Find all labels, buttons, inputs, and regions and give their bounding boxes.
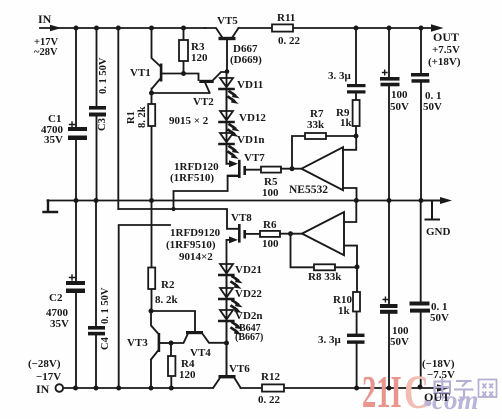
svg-text:0. 1 50V: 0. 1 50V xyxy=(100,287,111,324)
node IN bottom terminal circle xyxy=(56,384,64,392)
capacitor 0.1 50V lower xyxy=(420,201,422,389)
LED VD21 xyxy=(220,264,233,273)
svg-text:R2: R2 xyxy=(161,279,175,291)
node VD2n VT4 junction xyxy=(224,341,229,346)
capacitor 0.1 50V upper xyxy=(420,28,422,201)
node op-amp inverting junction xyxy=(290,166,295,171)
wire A middle horizontal xyxy=(118,209,238,229)
svg-text:50V: 50V xyxy=(430,312,449,324)
svg-text:VD11: VD11 xyxy=(237,79,263,91)
svg-text:8. 2k: 8. 2k xyxy=(137,106,148,128)
svg-text:35V: 35V xyxy=(44,134,63,146)
capacitor C1 xyxy=(75,28,77,201)
ground left end hook xyxy=(44,201,58,213)
resistor R3 xyxy=(183,28,185,74)
wire top rail xyxy=(40,27,434,29)
capacitor 100u 50V lower electrolytic xyxy=(388,201,390,389)
wire left long column top xyxy=(117,28,119,209)
capacitor 3.3u upper xyxy=(355,28,357,84)
svg-text:R8 33k: R8 33k xyxy=(308,271,342,283)
LED VD1n xyxy=(220,133,233,142)
wire mid rail xyxy=(48,200,422,202)
svg-text:VT1: VT1 xyxy=(130,67,151,79)
transistor VT1 xyxy=(152,28,161,93)
node dots mid rail xyxy=(74,198,424,203)
svg-text:50V: 50V xyxy=(390,101,409,113)
resistor R11 xyxy=(272,24,293,31)
svg-text:21I: 21I xyxy=(362,367,402,417)
svg-text:C2: C2 xyxy=(49,292,63,304)
transistor VT8 mosfet xyxy=(238,224,241,243)
svg-text:50V: 50V xyxy=(423,101,442,113)
svg-text:OUT: OUT xyxy=(433,30,459,44)
svg-text:0. 22: 0. 22 xyxy=(278,35,301,47)
svg-text:GND: GND xyxy=(426,226,451,238)
op-amp U1 upper NE5532 xyxy=(302,147,344,190)
svg-text:IN: IN xyxy=(36,382,50,396)
node dots upper misc xyxy=(149,71,186,96)
node dots top rail xyxy=(74,26,424,31)
watermark dianziwang chars xyxy=(435,378,497,401)
wire feedback lower xyxy=(291,234,315,268)
resistor R1 xyxy=(151,93,153,201)
svg-text:9014×2: 9014×2 xyxy=(179,251,213,263)
svg-text:100: 100 xyxy=(262,238,279,250)
svg-text:VT7: VT7 xyxy=(244,152,265,164)
watermark dot com xyxy=(425,385,479,415)
transistor VT2 xyxy=(183,72,227,93)
svg-text:1RFD9120: 1RFD9120 xyxy=(170,227,221,239)
svg-text:(B667): (B667) xyxy=(235,332,263,343)
svg-text:100: 100 xyxy=(391,89,408,101)
svg-text:50V: 50V xyxy=(390,336,409,348)
svg-text:(1RF510): (1RF510) xyxy=(170,172,214,184)
LED VD11 xyxy=(226,72,228,164)
svg-text:R11: R11 xyxy=(277,12,295,24)
svg-text:120: 120 xyxy=(191,52,208,64)
watermark 21IC xyxy=(362,367,429,419)
svg-text:VT8: VT8 xyxy=(231,212,252,224)
svg-text:+7.5V: +7.5V xyxy=(432,44,460,56)
svg-text:33k: 33k xyxy=(307,119,325,131)
capacitor 100u 50V upper electrolytic xyxy=(388,28,390,201)
svg-text:R1: R1 xyxy=(126,111,137,124)
svg-text:(−28V): (−28V) xyxy=(28,358,61,370)
svg-text:VD2n: VD2n xyxy=(235,310,263,322)
node R2 bottom junction xyxy=(149,309,154,314)
wire B middle horizontal xyxy=(119,225,170,388)
svg-text:NE5532: NE5532 xyxy=(289,184,328,196)
svg-text:VT6: VT6 xyxy=(229,363,250,375)
resistor R4 xyxy=(170,343,172,388)
resistor R5 xyxy=(261,167,281,173)
node R7 R9 junction xyxy=(354,134,359,139)
svg-text:(+18V): (+18V) xyxy=(428,56,461,68)
svg-text:35V: 35V xyxy=(50,318,69,330)
node IN top arrow mark xyxy=(50,25,62,31)
svg-text:(1RF9510): (1RF9510) xyxy=(166,239,216,251)
svg-text:0. 1 50V: 0. 1 50V xyxy=(98,57,109,94)
capacitor C3 xyxy=(96,28,98,201)
svg-text:VD21: VD21 xyxy=(235,264,262,276)
svg-text:100: 100 xyxy=(262,187,279,199)
op-amp U1 lower xyxy=(302,212,344,255)
transistor VT5 xyxy=(205,28,239,37)
svg-text:VD12: VD12 xyxy=(239,112,266,124)
transistor VT4 xyxy=(151,311,227,343)
node VT3 base junction xyxy=(169,341,174,346)
svg-text:3. 3μ: 3. 3μ xyxy=(328,70,352,82)
svg-text:VT5: VT5 xyxy=(217,15,238,27)
svg-text:1k: 1k xyxy=(338,305,351,317)
svg-text:VD22: VD22 xyxy=(235,288,262,300)
node VT7 wireA junction xyxy=(171,207,175,211)
svg-text:C3: C3 xyxy=(97,118,108,131)
svg-text:0. 22: 0. 22 xyxy=(258,394,281,406)
resistor R2 xyxy=(151,201,153,312)
resistor R9 xyxy=(355,94,357,136)
svg-text:8. 2k: 8. 2k xyxy=(155,294,179,306)
wire feedback upper xyxy=(292,136,305,169)
node OUT bottom arrow xyxy=(437,384,450,392)
resistor R7 xyxy=(305,133,326,139)
node lower op-amp junction xyxy=(288,231,293,236)
wire VT1/VT2 emitter bus xyxy=(152,92,210,94)
LED VD12 xyxy=(220,111,233,120)
transistor VT7 mosfet xyxy=(227,163,231,165)
LED VD2n xyxy=(220,310,233,319)
svg-text:120: 120 xyxy=(179,369,196,381)
svg-text:3. 3μ: 3. 3μ xyxy=(318,334,342,346)
svg-text:VT3: VT3 xyxy=(127,337,148,349)
svg-text:VD1n: VD1n xyxy=(237,134,265,146)
svg-text:OUT: OUT xyxy=(424,390,450,404)
resistor R8 xyxy=(314,264,335,270)
LED VD22 xyxy=(220,288,233,297)
node dots bottom rail xyxy=(73,385,423,391)
resistor R6 xyxy=(260,231,280,237)
svg-text:~28V: ~28V xyxy=(34,47,58,58)
resistor R12 xyxy=(262,384,284,391)
capacitor C2 xyxy=(75,201,77,389)
svg-text:9015 × 2: 9015 × 2 xyxy=(169,115,209,127)
capacitor C4 xyxy=(95,201,97,389)
transistor VT6 xyxy=(219,375,236,378)
node VD11 top junction xyxy=(225,69,230,74)
node OUT top arrow xyxy=(431,24,444,32)
svg-text:R6: R6 xyxy=(263,219,277,231)
svg-text:1k: 1k xyxy=(340,117,353,129)
svg-text:IN: IN xyxy=(38,12,52,26)
svg-text:VT2: VT2 xyxy=(193,96,214,108)
wire bottom rail xyxy=(64,387,439,389)
node R8 R10 junction xyxy=(355,264,360,269)
svg-text:R12: R12 xyxy=(261,371,280,383)
capacitor 3.3u lower xyxy=(347,334,365,344)
transistor VT3 xyxy=(151,311,159,388)
svg-text:(D669): (D669) xyxy=(230,54,262,66)
svg-text:−7.5V: −7.5V xyxy=(427,369,455,381)
svg-text:C4: C4 xyxy=(100,336,111,350)
ground GND branch xyxy=(422,201,441,220)
resistor R10 xyxy=(356,267,358,334)
